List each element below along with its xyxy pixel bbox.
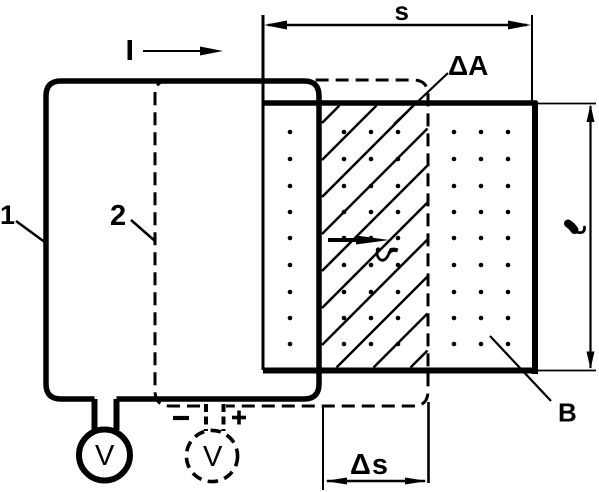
svg-text:Δs: Δs [350, 449, 389, 481]
leader line from label B into field region [490, 336, 551, 401]
svg-text:s: s [395, 0, 409, 26]
svg-text:V: V [203, 441, 223, 473]
voltmeter V2 body (dashed) [186, 430, 237, 481]
magnetic field region B boundary bottom edge [263, 368, 538, 374]
velocity arrow v [328, 236, 389, 245]
magnetic field region B boundary top edge [263, 100, 537, 106]
voltmeter V1 right stub wire [114, 399, 120, 430]
svg-text:V: V [95, 440, 115, 472]
voltmeter V2 left stub wire (dashed) [204, 404, 208, 431]
magnetic field region B boundary right edge [532, 101, 538, 374]
dimension delta-s right extension line [427, 402, 430, 483]
dimension s left extension line (continues as field region left edge) [262, 15, 265, 370]
dimension s label [395, 0, 409, 26]
current arrow [143, 47, 223, 56]
conducting loop 1 (solid, with gap at bottom for voltmeter) [46, 81, 319, 399]
voltmeter V1 body [79, 430, 130, 481]
leader line to dA label [394, 73, 448, 124]
voltmeter V2 right stub wire (dashed) [222, 404, 226, 431]
voltmeter V2 polarity plus [232, 411, 246, 425]
dimension delta-s line with arrowheads [325, 478, 427, 485]
dimension l top connector line [537, 103, 596, 105]
dimension s right extension line [531, 15, 533, 101]
dimension l vertical line with arrowheads [587, 105, 595, 370]
svg-text:2: 2 [110, 200, 126, 232]
magnetic field dots (flux out of page) [288, 130, 511, 347]
swept area dA hatching [322, 106, 428, 368]
dimension s line with arrowheads [264, 21, 531, 30]
conducting loop 2 (dashed, displaced position, gap at bottom for voltmeter) [155, 80, 428, 406]
current label I [128, 40, 133, 60]
svg-text:ΔA: ΔA [448, 50, 488, 81]
dimension delta-s left extension line [322, 406, 324, 490]
dimension l bottom connector line [538, 370, 596, 372]
dimension label l (rotated script ell) [568, 224, 585, 233]
velocity label v [376, 247, 399, 260]
voltmeter V1 left stub wire [92, 399, 98, 430]
voltmeter V2 polarity minus [173, 416, 189, 420]
svg-text:1: 1 [0, 200, 15, 230]
svg-text:B: B [558, 398, 577, 428]
leader line from label 2 to loop 2 [131, 220, 155, 241]
leader line from label 1 to loop 1 [16, 221, 46, 243]
